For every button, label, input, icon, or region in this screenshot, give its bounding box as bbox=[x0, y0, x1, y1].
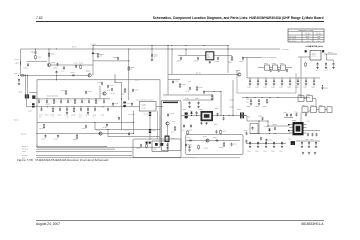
capacitor C0504 bbox=[223, 117, 225, 121]
svg-text:Q0401: Q0401 bbox=[51, 62, 55, 64]
wire vertical x=247 bbox=[242, 115, 247, 117]
svg-text:C0425: C0425 bbox=[134, 89, 138, 91]
small box around C0507 bbox=[250, 124, 258, 134]
frequency table outer border bbox=[288, 29, 324, 42]
svg-text:C0437: C0437 bbox=[100, 114, 104, 116]
resistor R0402 bbox=[35, 55, 37, 60]
component C0434 on second RF path bbox=[80, 106, 81, 107]
svg-text:C0436: C0436 bbox=[92, 114, 96, 116]
svg-text:C0520: C0520 bbox=[247, 150, 251, 152]
svg-text:C0562: C0562 bbox=[263, 86, 267, 88]
svg-text:RX BIAS: RX BIAS bbox=[22, 155, 28, 157]
capacitor C0438 bbox=[107, 108, 109, 112]
svg-text:C0456: C0456 bbox=[144, 114, 148, 116]
svg-text:C0553: C0553 bbox=[215, 61, 219, 63]
svg-text:C0406: C0406 bbox=[74, 62, 78, 64]
svg-text:BIAS: BIAS bbox=[188, 81, 191, 83]
svg-text:C0562: C0562 bbox=[324, 70, 328, 72]
svg-text:520 MHZ: 520 MHZ bbox=[316, 34, 322, 36]
wire left of U0551 bbox=[298, 56, 310, 58]
component C0437 on second RF path bbox=[102, 106, 103, 107]
svg-text:C0444: C0444 bbox=[71, 72, 75, 74]
svg-text:Z0532: Z0532 bbox=[306, 94, 310, 96]
capacitor C0446 stub bbox=[56, 70, 58, 74]
svg-text:C0564: C0564 bbox=[279, 86, 283, 88]
header page number bbox=[36, 16, 43, 20]
junction 56.5,75.3 bbox=[56, 75, 57, 76]
svg-text:1ST IF MHZ: 1ST IF MHZ bbox=[289, 38, 296, 40]
svg-text:C0403: C0403 bbox=[53, 68, 57, 70]
wire y=100 with cap pair bbox=[183, 99, 213, 101]
capacitor C0543 bbox=[296, 113, 298, 117]
dark component pair bottom x=147 bbox=[146, 142, 148, 144]
svg-text:L0511: L0511 bbox=[306, 139, 310, 141]
wire horizontal y=95 bbox=[163, 94, 213, 96]
svg-text:RX IN: RX IN bbox=[72, 46, 77, 49]
svg-text:R0463: R0463 bbox=[73, 139, 77, 141]
transformer T0511 dark bbox=[291, 141, 295, 145]
wire bottom y=143.3 bbox=[246, 142, 286, 144]
IF amplifier shield box bbox=[161, 101, 181, 151]
capacitor C0510 bbox=[266, 139, 268, 143]
svg-text:D0501: D0501 bbox=[183, 109, 187, 111]
component L0411 shunt on RF path bbox=[67, 98, 68, 99]
transistor Q0551 bbox=[238, 73, 241, 76]
svg-text:C0552: C0552 bbox=[194, 61, 198, 63]
inductor L0401 bbox=[20, 61, 22, 65]
pins left of U0501 bbox=[289, 124, 293, 126]
svg-text:411: 411 bbox=[69, 100, 71, 102]
svg-text:C0442: C0442 bbox=[113, 57, 117, 59]
wire vertical x=133.5 up to filter bbox=[133, 111, 135, 134]
mixer transformer T0501 bbox=[201, 111, 214, 121]
varactor D0502 bbox=[190, 111, 192, 115]
wire bias entry bbox=[114, 74, 116, 82]
figure caption bbox=[17, 158, 109, 162]
bus wire GND bbox=[36, 157, 196, 159]
svg-text:39p: 39p bbox=[66, 117, 68, 119]
pad left of U0551 bbox=[305, 50, 307, 52]
ground below C0441 bbox=[151, 59, 153, 61]
svg-text:C0561: C0561 bbox=[255, 86, 259, 88]
svg-text:C0551: C0551 bbox=[177, 61, 181, 63]
capacitor C0531 bbox=[250, 99, 252, 103]
svg-text:L0531: L0531 bbox=[246, 99, 250, 101]
footer rule bbox=[36, 219, 324, 222]
junction dots right of T0501 bbox=[228, 115, 229, 116]
svg-text:RX FIL A: RX FIL A bbox=[21, 133, 27, 135]
svg-text:Y0552: Y0552 bbox=[272, 63, 276, 65]
svg-text:Q0411: Q0411 bbox=[106, 90, 110, 92]
capacitor C0402 bbox=[35, 51, 37, 55]
resistor R0516 bbox=[223, 142, 225, 147]
table column divider 2 bbox=[312, 32, 314, 42]
wire vertical x=108 step bbox=[107, 130, 109, 137]
svg-text:C0434: C0434 bbox=[78, 114, 82, 116]
svg-text:C0402: C0402 bbox=[31, 51, 35, 53]
wire y=79.5 stub bbox=[168, 79, 180, 81]
antenna jack J0401 (dark) bbox=[25, 94, 27, 98]
svg-text:Q0441: Q0441 bbox=[86, 71, 91, 73]
capacitor C0556 bbox=[278, 69, 280, 73]
capacitor C0462 bbox=[57, 135, 59, 139]
pins right of U0501 bbox=[304, 124, 307, 126]
bus wire RX FIL B bbox=[36, 148, 115, 150]
svg-text:R0503: R0503 bbox=[214, 124, 218, 126]
capacitor C0425 bbox=[132, 89, 134, 93]
capacitor C0461 bbox=[45, 135, 47, 139]
svg-text:RX FIL: RX FIL bbox=[14, 120, 19, 122]
crystal Y0552 bbox=[273, 65, 278, 70]
svg-text:0.1uF: 0.1uF bbox=[135, 80, 139, 82]
capacitor C0563 shunt bbox=[273, 79, 275, 83]
svg-text:44.85: 44.85 bbox=[306, 38, 310, 40]
wire U0551 output bbox=[324, 53, 337, 55]
svg-text:R0536: R0536 bbox=[230, 100, 234, 102]
capacitor C0521 bottom row bbox=[257, 142, 259, 146]
transistor Q0411 LNA bbox=[103, 92, 106, 95]
svg-text:455: 455 bbox=[317, 41, 319, 43]
svg-text:R0516: R0516 bbox=[219, 147, 223, 149]
wire IF output right bbox=[307, 130, 321, 132]
table title row divider bbox=[288, 31, 324, 33]
svg-text:C0457: C0457 bbox=[152, 130, 156, 132]
wire step y=129.6 bbox=[95, 129, 160, 131]
svg-text:100p: 100p bbox=[154, 56, 157, 58]
wire RX input net (top horizontal) bbox=[21, 48, 281, 50]
table column divider 1 bbox=[301, 32, 303, 42]
svg-text:R0403: R0403 bbox=[51, 54, 55, 56]
wire mixer input y=121 bbox=[247, 120, 268, 122]
wire output branch bbox=[326, 54, 328, 60]
svg-text:C0516: C0516 bbox=[213, 137, 217, 139]
ferrite bead E0401 bbox=[92, 53, 94, 54]
pad right of U0551 bbox=[322, 50, 324, 52]
svg-text:Q0471: Q0471 bbox=[172, 121, 176, 123]
wire stub to shield top bbox=[56, 75, 58, 80]
dark capacitor C0456 right of filter bbox=[149, 112, 151, 114]
capacitor C0421 bbox=[101, 82, 103, 86]
capacitor C0560 shunt bbox=[249, 79, 251, 83]
resistor R0463 bbox=[76, 134, 78, 139]
resistor R0491 bbox=[179, 83, 181, 88]
component C0436 on second RF path bbox=[94, 106, 95, 107]
capacitor C0445 bbox=[118, 117, 120, 121]
diode D0503 to ground bbox=[268, 128, 270, 132]
svg-text:412: 412 bbox=[83, 100, 85, 102]
svg-text:R0531: R0531 bbox=[263, 106, 267, 108]
svg-text:455: 455 bbox=[306, 41, 308, 43]
svg-text:RX FRONT-END: RX FRONT-END bbox=[47, 94, 59, 97]
svg-text:C0433: C0433 bbox=[64, 114, 68, 116]
svg-text:L0401: L0401 bbox=[15, 62, 19, 64]
capacitor C0494 bbox=[203, 91, 205, 95]
capacitor C0507 in small box bbox=[252, 127, 254, 131]
svg-text:C0481: C0481 bbox=[185, 98, 189, 100]
svg-text:C0563: C0563 bbox=[271, 86, 275, 88]
svg-text:120n: 120n bbox=[246, 101, 249, 103]
svg-text:D0401: D0401 bbox=[28, 111, 32, 113]
capacitor C0541 bbox=[286, 113, 288, 117]
capacitor C0536 bottom right bbox=[301, 142, 303, 146]
ground in IF box bbox=[166, 147, 168, 149]
svg-text:FE 5V: FE 5V bbox=[22, 151, 26, 153]
svg-text:C0492: C0492 bbox=[185, 91, 189, 93]
ground marks under T0501 bbox=[200, 122, 202, 124]
svg-text:C0506: C0506 bbox=[258, 116, 262, 118]
capacitor C0472 above Q0471 bbox=[167, 113, 169, 117]
wire vertical x=259 bbox=[258, 121, 260, 134]
svg-text:C0419: C0419 bbox=[88, 91, 92, 93]
svg-text:C0519: C0519 bbox=[244, 130, 248, 132]
tuned circuit Z0536 bbox=[327, 107, 332, 113]
svg-text:C0462: C0462 bbox=[54, 139, 58, 141]
wire filter to IF amp box bbox=[156, 106, 163, 108]
inner component box U0461 bbox=[152, 141, 168, 152]
capacitor C0471 bbox=[167, 143, 169, 147]
capacitor C0509 bbox=[260, 137, 262, 141]
cluster above box2 bbox=[216, 130, 218, 134]
capacitor C0513 IF match bbox=[316, 133, 318, 137]
junction 128.8,60.9 bbox=[128, 60, 129, 61]
transistor Q0511 bbox=[206, 139, 209, 142]
wire matching network y=61.2 bbox=[27, 60, 48, 62]
capacitor C0554 bbox=[242, 57, 244, 61]
resistor R0442 bbox=[128, 66, 130, 71]
wire vertical x=168 long bbox=[167, 46, 169, 96]
resistor R0561 bbox=[305, 62, 307, 67]
bus wire FE 5V bbox=[36, 151, 132, 153]
junction dots injection feed bbox=[246, 97, 247, 98]
svg-text:ANT: ANT bbox=[14, 73, 17, 75]
capacitor C0517 bbox=[231, 143, 233, 147]
table row divider 2 bbox=[288, 39, 324, 41]
svg-text:R0424: R0424 bbox=[121, 94, 125, 96]
svg-text:C0422: C0422 bbox=[110, 85, 114, 87]
svg-text:C0566: C0566 bbox=[295, 86, 299, 88]
capacitor C0419 bbox=[85, 91, 87, 95]
svg-text:C0441: C0441 bbox=[154, 54, 158, 56]
table row divider 1 bbox=[288, 36, 324, 38]
svg-text:C0440 (NU): C0440 (NU) bbox=[128, 114, 135, 116]
varactor pair D0501 dark bbox=[185, 112, 188, 114]
wire vertical x=35.5 bbox=[35, 49, 37, 51]
resistor R0441 bbox=[97, 53, 99, 58]
svg-text:R0518: R0518 bbox=[204, 148, 208, 150]
capacitor C0553 bbox=[217, 57, 219, 61]
component C0417 shunt on RF path bbox=[103, 98, 104, 99]
inductor L0511 IF match bbox=[307, 133, 309, 137]
resistor R0531 bbox=[266, 99, 268, 104]
svg-text:0551: 0551 bbox=[207, 57, 210, 59]
wire vertical x=152 from bias rail bbox=[151, 46, 153, 59]
svg-text:1ST LO INJ: 1ST LO INJ bbox=[289, 36, 296, 38]
svg-text:R0414: R0414 bbox=[61, 90, 65, 92]
wire vertical x=157.5 bbox=[157, 111, 159, 139]
component R0433 on second RF path bbox=[73, 106, 74, 107]
capacitor C0440 cluster bbox=[131, 103, 133, 107]
svg-text:RX INJ: RX INJ bbox=[196, 72, 201, 75]
capacitor C0569 right stub bbox=[322, 86, 324, 90]
capacitor C0542 bbox=[290, 113, 292, 117]
svg-text:R0433: R0433 bbox=[71, 114, 75, 116]
svg-text:C0568: C0568 bbox=[311, 86, 315, 88]
wire y=126 toward mixer bbox=[268, 125, 289, 127]
component C0435 on second RF path bbox=[87, 106, 88, 107]
svg-text:R0471: R0471 bbox=[171, 131, 175, 133]
twin feed wires down to jack bbox=[25, 75, 27, 94]
wire IF row y=115.6 bbox=[181, 115, 247, 117]
svg-text:C0532: C0532 bbox=[255, 106, 259, 108]
capacitor C0496 bbox=[211, 94, 213, 98]
component U0471 dark bbox=[165, 136, 170, 143]
component C0431 on second RF path bbox=[41, 106, 42, 107]
svg-text:C0423: C0423 bbox=[111, 93, 115, 95]
bus wire RX FIL A bbox=[36, 145, 107, 147]
tuned circuit Z0533 bbox=[302, 107, 308, 113]
capacitor C0551 bbox=[180, 57, 182, 61]
crystal Y0551 bbox=[265, 65, 270, 70]
wire vertical x=49 to Q0401 bbox=[48, 49, 50, 63]
resistor R0465 bbox=[146, 144, 148, 149]
wire left antenna drop bbox=[20, 49, 22, 75]
capacitor C0557 bbox=[286, 69, 288, 73]
component C0432 on second RF path bbox=[59, 106, 60, 107]
wire jack down to second RF path bbox=[26, 99, 28, 107]
crystal filter FL0451 box bbox=[140, 102, 157, 112]
SAW filter FL0551 bbox=[206, 52, 214, 60]
junction 128.8,49 bbox=[128, 48, 129, 49]
ground symbols bottom right bbox=[302, 152, 304, 154]
component C0416 shunt on RF path bbox=[95, 98, 96, 99]
svg-text:C0455: C0455 bbox=[103, 127, 107, 129]
svg-text:44.85: 44.85 bbox=[317, 38, 321, 40]
svg-text:VCO/BUFFER (SH 2): VCO/BUFFER (SH 2) bbox=[306, 45, 324, 48]
svg-text:C0508: C0508 bbox=[273, 124, 277, 126]
wire jack into LNA box bbox=[29, 91, 37, 93]
svg-text:10K: 10K bbox=[100, 56, 102, 58]
wire vertical x=247 bbox=[246, 58, 248, 79]
shield box corner around injection filter bbox=[236, 70, 238, 93]
wire vertical x=95 step bbox=[94, 123, 96, 130]
svg-text:2ND LO 44.645 MHZ: 2ND LO 44.645 MHZ bbox=[263, 57, 277, 59]
inductor L0512 IF match bbox=[312, 133, 314, 137]
capacitor C0404 bbox=[63, 66, 65, 70]
junction dots RX input net bbox=[56, 48, 57, 49]
svg-text:Q0551: Q0551 bbox=[236, 70, 241, 72]
capacitor C0482 bbox=[198, 101, 200, 105]
table header row divider bbox=[288, 34, 324, 36]
svg-text:C0452: C0452 bbox=[81, 128, 85, 130]
wire vertical x=301 injection feed bbox=[300, 57, 302, 98]
bus wire RX BIAS bbox=[36, 154, 132, 156]
svg-text:C0432: C0432 bbox=[57, 114, 61, 116]
svg-text:Z0531: Z0531 bbox=[298, 94, 302, 96]
capacitor C0544 bbox=[305, 113, 307, 117]
svg-text:LMV116: LMV116 bbox=[312, 56, 317, 58]
svg-text:C0537: C0537 bbox=[230, 107, 234, 109]
footer part number bbox=[301, 222, 323, 226]
varactor pair D0401 dark bbox=[32, 103, 35, 105]
wire RX filter drive y=133.5 bbox=[36, 133, 134, 135]
svg-text:R0451: R0451 bbox=[39, 128, 43, 130]
capacitor C0503 bbox=[217, 113, 219, 117]
capacitor C0407 to ground bbox=[18, 79, 20, 83]
svg-text:FL0451: FL0451 bbox=[141, 104, 146, 106]
capacitor C0491 above bbox=[172, 80, 174, 84]
svg-text:U0501: U0501 bbox=[292, 120, 296, 122]
capacitor C0563 bbox=[333, 63, 335, 67]
wire bias ladder y=78 bbox=[247, 77, 320, 79]
resistor R0424 bbox=[124, 88, 126, 93]
svg-text:C0491: C0491 bbox=[175, 81, 179, 83]
capacitor C0441 bbox=[151, 54, 153, 58]
wire second RF path y=106.8 into filter bbox=[27, 106, 140, 108]
svg-text:C0435: C0435 bbox=[85, 114, 89, 116]
capacitor C0520 bottom row bbox=[249, 142, 251, 146]
varactor pair D0402 dark bbox=[123, 102, 126, 104]
svg-text:411: 411 bbox=[55, 100, 57, 102]
wire step y=136.7 bbox=[108, 136, 160, 138]
svg-text:C0543: C0543 bbox=[294, 111, 298, 113]
wire vertical x=221 bbox=[220, 92, 222, 116]
capacitor C0452 bbox=[85, 125, 87, 129]
svg-text:R0402: R0402 bbox=[37, 56, 41, 58]
svg-text:Y0553: Y0553 bbox=[280, 63, 284, 65]
svg-text:R0432: R0432 bbox=[50, 114, 54, 116]
svg-text:U0551: U0551 bbox=[312, 54, 316, 56]
component C0433 on second RF path bbox=[66, 106, 67, 107]
capacitor C0562 shunt bbox=[265, 79, 267, 83]
svg-text:C0497: C0497 bbox=[181, 130, 185, 132]
svg-text:C0523: C0523 bbox=[271, 150, 275, 152]
capacitor C0567 shunt bbox=[305, 79, 307, 83]
svg-text:1K: 1K bbox=[52, 117, 54, 119]
svg-text:C0531: C0531 bbox=[246, 106, 250, 108]
svg-text:R0401: R0401 bbox=[15, 59, 19, 61]
transistor Q0441 bbox=[88, 74, 91, 77]
svg-text:D0402: D0402 bbox=[127, 103, 131, 105]
svg-text:PREAMP: PREAMP bbox=[45, 103, 51, 105]
svg-text:C0521: C0521 bbox=[255, 150, 259, 152]
svg-text:C0439: C0439 bbox=[114, 103, 118, 105]
svg-text:C0517: C0517 bbox=[233, 144, 237, 146]
capacitor C0481 bbox=[189, 101, 191, 105]
capacitor C0562 bbox=[325, 63, 327, 67]
svg-text:C0561: C0561 bbox=[315, 70, 319, 72]
crystal Y0553 bbox=[281, 65, 286, 70]
capacitor C0538 bottom right bbox=[315, 142, 317, 146]
component R0432 on second RF path bbox=[52, 106, 53, 107]
svg-text:C0503: C0503 bbox=[215, 108, 219, 110]
capacitor C0506 bbox=[262, 117, 264, 121]
svg-text:C0510: C0510 bbox=[269, 140, 273, 142]
resistor R0471 bbox=[174, 126, 176, 131]
wire y=157.8 bottom bus segment under box2 bbox=[196, 157, 240, 159]
capacitor C0555 bbox=[270, 69, 272, 73]
pin pads left of U0501 bbox=[288, 124, 290, 125]
wire injection feed y=97.5 bbox=[242, 97, 310, 99]
wire bottom right y=141 bbox=[296, 140, 320, 142]
capacitor C0566 shunt bbox=[297, 79, 299, 83]
svg-text:T0501: T0501 bbox=[199, 109, 203, 111]
capacitor C0502 bbox=[196, 111, 198, 115]
capacitor C0515 bbox=[189, 140, 193, 142]
svg-text:R0492: R0492 bbox=[199, 87, 203, 89]
svg-text:RX FIL A: RX FIL A bbox=[22, 146, 28, 148]
svg-text:C0560: C0560 bbox=[247, 86, 251, 88]
resistor R0414 bbox=[65, 90, 67, 95]
